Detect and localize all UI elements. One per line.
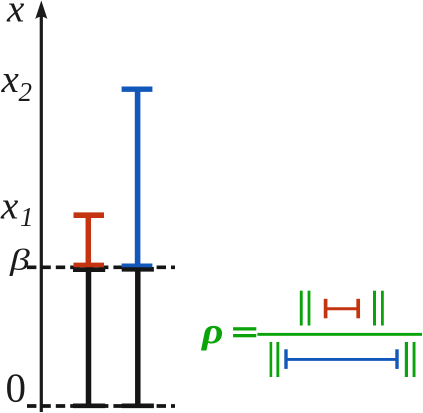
svg-text:2: 2 — [19, 77, 33, 107]
red bar bottom cap — [74, 263, 105, 268]
svg-text:x: x — [0, 58, 19, 101]
black bar 1 vertical (0 to beta, left) — [86, 268, 92, 407]
red bar vertical (beta to x1) — [86, 215, 92, 265]
denominator left norm bars — [270, 342, 273, 377]
svg-text:1: 1 — [20, 202, 34, 232]
black bar 1 top cap — [73, 267, 105, 272]
black bar 2 bottom cap — [122, 403, 154, 408]
svg-text:0: 0 — [6, 365, 27, 411]
fraction bar — [257, 333, 422, 336]
numerator red interval right cap — [356, 299, 360, 319]
svg-text:β: β — [9, 243, 30, 276]
black bar 2 top cap — [122, 267, 154, 272]
numerator red interval left cap — [324, 299, 328, 319]
blue bar top cap — [122, 86, 153, 91]
red bar top cap — [74, 212, 105, 218]
black bar 1 bottom cap — [73, 403, 105, 408]
denominator blue interval horizontal — [285, 358, 399, 361]
axis arrowhead — [35, 1, 47, 20]
numerator red interval horizontal — [324, 307, 360, 310]
numerator right norm bars — [373, 291, 376, 326]
denominator blue interval left cap — [284, 349, 287, 369]
denominator right norm bars — [405, 342, 408, 377]
blue bar bottom cap — [122, 263, 153, 267]
svg-text:ρ: ρ — [201, 311, 224, 351]
blue bar vertical (beta to x2) — [135, 89, 141, 265]
svg-text:x: x — [0, 185, 19, 228]
formula equals sign lower stroke — [233, 334, 256, 337]
black bar 2 vertical (0 to beta, right) — [135, 268, 141, 407]
dashed level line at beta — [27, 265, 175, 269]
denominator blue interval right cap — [395, 349, 398, 369]
formula equals sign upper stroke — [233, 327, 256, 330]
dashed level line at 0 — [27, 404, 175, 408]
svg-text:x: x — [6, 0, 25, 30]
axis vertical line — [40, 13, 43, 412]
numerator left norm bars — [300, 291, 303, 326]
